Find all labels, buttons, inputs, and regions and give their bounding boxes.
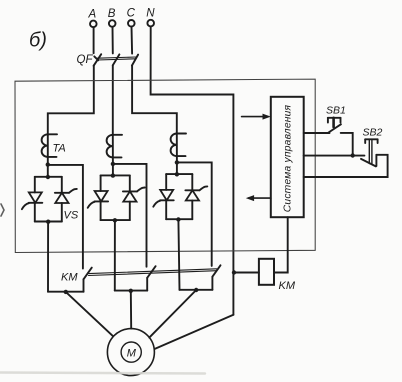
wire SB1 to junction (341, 133, 353, 156)
node phase A split (46, 162, 50, 166)
wire QF pole C down with jog right (132, 66, 177, 135)
push button SB2 (361, 127, 383, 167)
node motor lead A (64, 290, 68, 294)
thyristor pair phase C (153, 174, 207, 219)
thyristor VS1 (down) (29, 192, 42, 202)
terminal A (88, 9, 97, 28)
wire QF pole A down with jog left (48, 66, 94, 136)
wire feed into block C (176, 162, 178, 174)
QF pole A cross tick (94, 56, 98, 60)
wire phase C terminal to QF (131, 27, 134, 54)
svg-text:A: A (88, 9, 97, 21)
arrow into control box (242, 114, 271, 120)
svg-text:б): б) (29, 30, 47, 52)
SB2 plunger (365, 138, 377, 140)
SB2 right hook (375, 155, 377, 166)
wire bypass phase C (177, 162, 212, 266)
wire neutral N down and right (151, 26, 234, 314)
arrow out of control box (246, 195, 271, 201)
current transformer phase B (107, 135, 122, 165)
terminal N (146, 8, 155, 27)
svg-text:KM: KM (61, 272, 78, 284)
QF pole B blade (113, 54, 120, 65)
node block C top (175, 172, 179, 176)
thyristor pair VS phase A (22, 177, 79, 222)
svg-text:KM: KM (279, 280, 296, 292)
SB2 contact blade (361, 159, 376, 167)
svg-text:SB2: SB2 (363, 127, 383, 139)
wire control box to SB2 (304, 155, 365, 157)
wire motor lead C (149, 290, 196, 338)
svg-text:TA: TA (53, 143, 66, 155)
wire motor lead N diagonal (155, 315, 234, 349)
node block B bottom (113, 218, 117, 222)
node motor lead C (194, 288, 198, 292)
wire control box to SB1 (304, 132, 330, 134)
thyristor pair phase B (88, 175, 145, 220)
terminal C (127, 8, 136, 27)
wire block B output down (114, 220, 116, 291)
contactor coil KM (259, 259, 296, 292)
wire block A output down (47, 222, 49, 292)
wire phase B terminal to QF (112, 27, 114, 54)
node SB junction (351, 153, 355, 157)
wire QF pole B down (112, 65, 114, 135)
circuit breaker QF (77, 54, 139, 66)
node phase C split (175, 160, 179, 164)
node motor lead B (129, 289, 133, 293)
node block C bottom (176, 217, 180, 221)
contactor KM contact phase A (48, 268, 92, 292)
QF pole C blade (132, 55, 138, 66)
svg-text:VS: VS (64, 210, 79, 222)
svg-text:N: N (146, 8, 155, 20)
scan artifact left edge (1, 204, 4, 216)
wire KM coil to neutral (234, 272, 259, 274)
wire bypass phase A (48, 165, 83, 269)
push button SB1 (326, 105, 346, 134)
svg-text:B: B (108, 8, 116, 20)
wire motor lead A (66, 292, 113, 336)
thyristor B down (95, 191, 108, 201)
node KM coil neutral junction (232, 270, 236, 274)
contactor KM contact phase B (115, 266, 156, 290)
svg-text:Система управления: Система управления (283, 104, 294, 212)
SB1 contact blade (328, 124, 341, 133)
thyristor C down (160, 190, 173, 200)
outer enclosure box (15, 79, 315, 252)
QF pole A blade (94, 54, 102, 66)
current transformer TA phase A (42, 134, 66, 165)
node phase B split (111, 162, 115, 166)
thyristor C up (185, 189, 199, 191)
node block B top (111, 173, 115, 177)
svg-text:SB1: SB1 (326, 105, 346, 117)
wire control box to KM coil (274, 217, 288, 272)
current transformer phase C (171, 133, 186, 162)
scan streak bottom (0, 373, 205, 374)
KM linkage bar (89, 269, 217, 276)
wire feed into block A (47, 165, 49, 177)
terminal B (108, 8, 116, 27)
wire phase A terminal to QF (93, 27, 95, 53)
wire bypass phase B (113, 164, 147, 267)
SB1 plunger (328, 117, 341, 119)
svg-text:М: М (127, 347, 137, 359)
wire block C output down (178, 219, 179, 290)
contactor KM contact phase C (180, 265, 221, 290)
svg-text:QF: QF (77, 54, 94, 66)
wire feed into block B (112, 164, 114, 176)
node block A bottom (46, 220, 50, 224)
motor M (107, 329, 154, 376)
node block A top (46, 175, 50, 179)
wire motor lead B (130, 291, 132, 329)
wire SB2 return loop (304, 155, 388, 177)
QF linkage bar (97, 57, 135, 58)
svg-text:C: C (127, 8, 136, 20)
control system box (271, 97, 304, 217)
thyristor B up (123, 190, 137, 192)
thyristor VS2 (up) (55, 192, 69, 194)
